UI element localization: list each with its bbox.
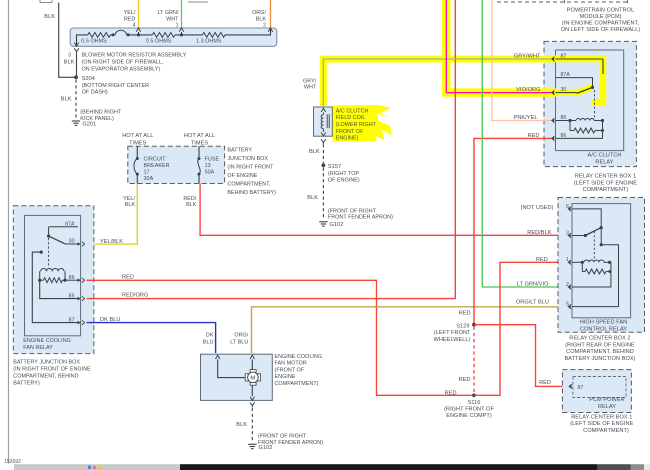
- HS relay contact to pin 5: [572, 229, 619, 307]
- A/C relay coil: [551, 115, 604, 133]
- svg-text:LT GRN/: LT GRN/: [157, 10, 179, 16]
- svg-text:FAN MOTOR: FAN MOTOR: [275, 361, 307, 367]
- svg-text:HOT AT ALL: HOT AT ALL: [184, 133, 215, 139]
- svg-text:(IN RIGHT FRONT: (IN RIGHT FRONT: [227, 164, 274, 170]
- svg-text:13: 13: [205, 163, 211, 169]
- svg-text:RED: RED: [528, 133, 540, 139]
- svg-text:BATTERY JUNCTION BOX): BATTERY JUNCTION BOX): [564, 356, 635, 362]
- A/C coil element: [321, 108, 329, 136]
- fan relay pin 87: [69, 317, 85, 325]
- wire RED/ORG: [87, 0, 456, 299]
- svg-text:(BEHIND RIGHT: (BEHIND RIGHT: [80, 109, 122, 115]
- svg-text:0.5 OHMS: 0.5 OHMS: [81, 38, 107, 44]
- label BLK (to G201): [61, 97, 72, 103]
- svg-text:RED: RED: [459, 377, 471, 383]
- relay center box 1 (PCM power): [562, 370, 631, 413]
- fan relay armature link: [48, 238, 50, 268]
- label HOT AT ALL TIMES (right): [184, 133, 215, 146]
- svg-text:FRONT FENDER APRON): FRONT FENDER APRON): [328, 215, 393, 221]
- battery junction box caption 2: [13, 360, 91, 387]
- svg-text:FAN RELAY: FAN RELAY: [23, 345, 53, 351]
- label DK BLU (vertical): [203, 332, 214, 345]
- A/C coil exit bracket: [321, 139, 326, 144]
- svg-text:RED: RED: [459, 310, 471, 316]
- svg-text:YEL/BLK: YEL/BLK: [100, 239, 123, 245]
- high speed relay box: [572, 204, 631, 318]
- fan relay 87A contact: [47, 221, 78, 237]
- junction S129: [472, 323, 476, 327]
- svg-text:A/C CLUTCH: A/C CLUTCH: [588, 153, 622, 159]
- svg-text:OF DASH): OF DASH): [82, 90, 108, 96]
- HS relay pin 6: [521, 204, 603, 229]
- HS relay armature link: [593, 231, 595, 259]
- circuit breaker 17 30A: [134, 146, 170, 183]
- wire LT GRN/WHT pin 1: [181, 0, 183, 28]
- wire RED dashed S129 to S116: [473, 327, 475, 394]
- svg-text:5: 5: [566, 302, 569, 308]
- fan relay blade: [49, 236, 65, 244]
- relay center box 1 caption: [574, 174, 637, 194]
- svg-text:ENGINE): ENGINE): [336, 136, 359, 142]
- junction S157: [322, 163, 326, 167]
- wire RED S129 to PCM power relay: [474, 325, 568, 387]
- svg-text:GRY/WHT: GRY/WHT: [514, 54, 541, 60]
- fan relay caption: [23, 338, 71, 351]
- svg-text:BLOWER MOTOR RESISTOR ASSEMBLY: BLOWER MOTOR RESISTOR ASSEMBLY: [82, 53, 187, 59]
- pin 1 junction: [179, 28, 183, 37]
- svg-text:RED/ORG: RED/ORG: [122, 293, 148, 299]
- svg-text:30: 30: [69, 239, 75, 245]
- label ORG/LT BLU (pin 5): [516, 299, 549, 305]
- svg-text:MODULE (PCM): MODULE (PCM): [579, 14, 621, 20]
- svg-text:RED/: RED/: [183, 196, 197, 202]
- label RED (PCM relay): [539, 380, 551, 386]
- label S157: [328, 164, 360, 183]
- svg-text:ON EVAPORATOR ASSEMBLY): ON EVAPORATOR ASSEMBLY): [82, 66, 161, 72]
- svg-text:(NOT USED): (NOT USED): [521, 205, 554, 211]
- svg-text:BLK: BLK: [64, 59, 75, 65]
- svg-text:HOT AT ALL: HOT AT ALL: [122, 133, 153, 139]
- svg-text:G201: G201: [82, 122, 96, 128]
- highlight band A/C relay blade: [554, 87, 594, 94]
- svg-text:87A: 87A: [65, 221, 75, 227]
- battery junction box (fuses): [128, 146, 225, 183]
- relay center box 2: [558, 198, 645, 333]
- label DK BLU: [100, 317, 120, 323]
- label GRY/WHT (pin 87): [514, 54, 541, 60]
- label PNK/YEL: [514, 115, 538, 121]
- relay center box 2 caption: [564, 336, 635, 362]
- svg-text:(LEFT SIDE OF ENGINE: (LEFT SIDE OF ENGINE: [574, 180, 637, 186]
- svg-text:30: 30: [561, 87, 567, 93]
- svg-text:30A: 30A: [144, 176, 154, 182]
- svg-text:4: 4: [133, 22, 136, 28]
- label RED above S129: [459, 310, 471, 316]
- highlight blob over A/C clutch field coil text: [333, 105, 393, 142]
- svg-text:(RIGHT FRONT OF: (RIGHT FRONT OF: [444, 407, 494, 413]
- fan relay coil: [38, 269, 80, 283]
- resistor 1.3 OHMS: [196, 33, 225, 45]
- label RED (pin 1): [536, 257, 548, 263]
- resistor network line: [77, 28, 271, 46]
- svg-text:(FRONT OF RIGHT: (FRONT OF RIGHT: [258, 433, 307, 439]
- highlight band VIO/ORG wire: [446, 0, 556, 93]
- svg-text:CONTROL RELAY: CONTROL RELAY: [580, 327, 627, 333]
- fan relay pin 30: [65, 239, 85, 247]
- svg-text:POWERTRAIN CONTROL: POWERTRAIN CONTROL: [567, 7, 634, 13]
- svg-text:1.3 OHMS: 1.3 OHMS: [196, 38, 222, 44]
- wire BLK from connector: [59, 3, 74, 78]
- left panel border: [8, 0, 10, 464]
- label YEL/BLK (vertical wire): [123, 196, 135, 208]
- svg-text:BREAKER: BREAKER: [144, 163, 170, 169]
- label LT GRN/WHT: [157, 10, 179, 28]
- HS relay pin 2: [566, 272, 611, 290]
- label LT GRN/VIO: [517, 282, 549, 288]
- svg-text:TIMES: TIMES: [129, 140, 147, 146]
- wire RED/BLK: [200, 184, 567, 236]
- label front fender apron (motor): [258, 433, 323, 446]
- highlight band GRY/WHT wire: [323, 59, 556, 106]
- svg-text:17: 17: [144, 169, 150, 175]
- svg-text:ON LEFT SIDE OF FIREWALL): ON LEFT SIDE OF FIREWALL): [561, 27, 641, 33]
- svg-text:1: 1: [566, 257, 569, 263]
- svg-text:BLU: BLU: [203, 339, 214, 345]
- svg-text:COMPARTMENT): COMPARTMENT): [275, 381, 319, 387]
- diagram number: [4, 459, 21, 465]
- PCM power relay caption: [589, 397, 624, 410]
- label ORG/LT BLU (vertical): [230, 332, 248, 345]
- fuse 13 50A: [198, 146, 220, 183]
- ground G201: [72, 121, 96, 128]
- powertrain control module label: [561, 7, 641, 33]
- svg-text:S157: S157: [328, 164, 341, 170]
- svg-text:COMPARTMENT,: COMPARTMENT,: [227, 181, 271, 187]
- wire LT GRN/VIO: [482, 0, 567, 287]
- svg-text:(RIGHT TOP: (RIGHT TOP: [328, 171, 360, 177]
- svg-text:ORG/LT BLU: ORG/LT BLU: [516, 299, 549, 305]
- svg-text:BLK: BLK: [186, 202, 197, 208]
- svg-text:PNK/YEL: PNK/YEL: [514, 115, 538, 121]
- svg-text:(BOTTOM RIGHT CENTER: (BOTTOM RIGHT CENTER: [82, 83, 149, 89]
- wire DK BLU: [87, 323, 216, 353]
- svg-text:S129: S129: [456, 323, 469, 329]
- label BLK (top left): [44, 14, 55, 20]
- motor caption: [275, 354, 323, 387]
- svg-text:TIMES: TIMES: [191, 140, 209, 146]
- top partial connector box: [40, 0, 52, 3]
- svg-text:ORG/: ORG/: [252, 10, 266, 16]
- svg-text:ENGINE COMPT): ENGINE COMPT): [446, 413, 492, 419]
- ground G102 (coil): [319, 222, 343, 228]
- blower caption: [82, 53, 187, 73]
- label YEL/BLK (horizontal): [100, 239, 123, 245]
- svg-text:3: 3: [566, 230, 569, 236]
- svg-text:RELAY CENTER BOX 2: RELAY CENTER BOX 2: [569, 336, 630, 342]
- svg-text:(FRONT OF: (FRONT OF: [275, 367, 305, 373]
- svg-text:BLK: BLK: [44, 14, 55, 20]
- svg-text:87: 87: [69, 317, 75, 323]
- svg-text:A/C CLUTCH: A/C CLUTCH: [336, 108, 369, 114]
- wire VIO/ORG core: [446, 0, 551, 93]
- svg-text:2: 2: [263, 22, 266, 28]
- svg-text:BLK: BLK: [125, 202, 136, 208]
- svg-text:OF ENGINE): OF ENGINE): [328, 177, 360, 183]
- svg-text:(LOWER RIGHT: (LOWER RIGHT: [336, 122, 377, 128]
- svg-text:(IN RIGHT FRONT OF ENGINE: (IN RIGHT FRONT OF ENGINE: [13, 367, 91, 373]
- pin 4 junction: [136, 28, 140, 37]
- svg-text:OF ENGINE: OF ENGINE: [227, 173, 257, 179]
- HS relay coil: [566, 257, 611, 274]
- blower motor resistor assembly box: [70, 28, 277, 46]
- resistor 0.5 OHMS (mid): [146, 33, 175, 45]
- svg-text:2: 2: [566, 282, 569, 288]
- svg-text:(LEFT FRONT: (LEFT FRONT: [434, 330, 471, 336]
- svg-text:DK BLU: DK BLU: [100, 317, 120, 323]
- svg-text:(RIGHT REAR OF ENGINE: (RIGHT REAR OF ENGINE: [565, 342, 635, 348]
- svg-text:DK: DK: [206, 332, 214, 338]
- PCM power relay box: [573, 377, 626, 398]
- svg-text:WHT: WHT: [304, 85, 317, 91]
- svg-text:LT BLU: LT BLU: [230, 339, 248, 345]
- svg-text:M: M: [250, 376, 255, 382]
- svg-text:RELAY: RELAY: [595, 160, 613, 166]
- svg-text:WHEELWELL): WHEELWELL): [434, 337, 471, 343]
- wire BLK pin3 to S204: [76, 53, 78, 77]
- wire BLK dashed to G201: [75, 80, 77, 121]
- pin 3 bracket: [74, 48, 79, 53]
- wire BLK dashed S157 to G102: [322, 168, 324, 220]
- svg-text:RELAY CENTER BOX 1: RELAY CENTER BOX 1: [571, 414, 632, 420]
- label RED/ORG: [122, 293, 148, 299]
- svg-text:S116: S116: [468, 400, 481, 406]
- bottom taskbar: [14, 464, 650, 470]
- motor M: [245, 370, 260, 386]
- battery junction box caption: [227, 147, 276, 196]
- svg-text:BATTERY JUNCTION BOX: BATTERY JUNCTION BOX: [13, 360, 80, 366]
- svg-text:0.5 OHMS: 0.5 OHMS: [146, 38, 172, 44]
- svg-text:RED/BLK: RED/BLK: [527, 230, 551, 236]
- high speed relay caption: [580, 320, 628, 333]
- svg-text:PCM POWER: PCM POWER: [589, 397, 624, 403]
- A/C clutch relay box: [556, 50, 624, 151]
- svg-text:ENGINE COOLING: ENGINE COOLING: [23, 338, 71, 344]
- svg-text:(IN ENGINE COMPARTMENT,: (IN ENGINE COMPARTMENT,: [562, 20, 640, 26]
- engine cooling fan motor box: [201, 354, 273, 400]
- svg-text:G102: G102: [330, 222, 344, 228]
- pin 2 arrow: [268, 28, 272, 32]
- motor pin arrows: [216, 355, 255, 359]
- svg-text:KICK PANEL): KICK PANEL): [80, 116, 114, 122]
- PCM power relay pin 87: [568, 384, 583, 391]
- label S116: [444, 400, 494, 419]
- svg-text:COMPARTMENT): COMPARTMENT): [583, 428, 629, 434]
- relay center box 1 caption (bottom): [570, 414, 633, 434]
- label GRY/WHT (left): [303, 78, 317, 90]
- svg-text:RED: RED: [536, 257, 548, 263]
- A/C relay pin 86: [551, 131, 603, 141]
- svg-text:(FRONT OF RIGHT: (FRONT OF RIGHT: [328, 208, 377, 214]
- label YEL/RED: [124, 10, 136, 28]
- label front fender apron (coil): [328, 208, 393, 220]
- A/C clutch field coil box: [314, 107, 333, 136]
- svg-text:FRONT FENDER APRON): FRONT FENDER APRON): [258, 440, 323, 446]
- svg-text:(LEFT SIDE OF ENGINE: (LEFT SIDE OF ENGINE: [570, 421, 633, 427]
- svg-text:ENGINE COOLING: ENGINE COOLING: [275, 354, 323, 360]
- svg-text:COMPARTMENT, BEHIND: COMPARTMENT, BEHIND: [566, 349, 634, 355]
- svg-text:BLK: BLK: [236, 422, 247, 428]
- A/C relay blade and pin 30: [551, 87, 593, 95]
- wire GRY/WHT core: [323, 59, 551, 106]
- svg-text:RED: RED: [539, 380, 551, 386]
- label S204: [82, 76, 149, 96]
- A/C relay 87A contact: [556, 72, 595, 89]
- svg-text:BATTERY): BATTERY): [13, 380, 40, 386]
- svg-text:VIO/ORG: VIO/ORG: [516, 87, 540, 93]
- svg-text:FUSE: FUSE: [205, 156, 220, 162]
- label VIO/ORG (pin 30): [516, 87, 540, 93]
- svg-text:152692: 152692: [4, 459, 21, 465]
- A/C relay armature link: [594, 90, 596, 118]
- relay center box 1 (A/C): [544, 41, 636, 166]
- svg-text:RED: RED: [122, 275, 134, 281]
- svg-text:BLK: BLK: [61, 97, 72, 103]
- svg-text:LT GRN/VIO: LT GRN/VIO: [517, 282, 549, 288]
- svg-text:BEHIND BATTERY): BEHIND BATTERY): [227, 190, 276, 196]
- junction S204: [74, 75, 78, 79]
- A/C relay pin 87: [551, 54, 603, 74]
- label RED/BLK (pin 3): [527, 230, 551, 236]
- wire ORG/LT BLU: [252, 307, 568, 353]
- HS relay pin 5: [566, 302, 571, 309]
- svg-text:(ON RIGHT SIDE OF FIREWALL,: (ON RIGHT SIDE OF FIREWALL,: [82, 60, 164, 66]
- label S129: [434, 323, 472, 343]
- wire YEL/RED pin 4: [138, 0, 140, 28]
- pin 3 arrow: [74, 43, 78, 47]
- label RED above S116: [459, 377, 471, 383]
- A/C clutch field coil text: [336, 108, 377, 141]
- svg-text:FIELD COIL: FIELD COIL: [336, 115, 366, 121]
- label RED/BLK (vertical wire): [183, 196, 197, 208]
- svg-text:FRONT OF: FRONT OF: [336, 129, 364, 135]
- svg-text:BATTERY: BATTERY: [227, 147, 252, 153]
- fan relay 87 contact stub: [32, 251, 80, 323]
- wire RED S116 to pin 1: [474, 262, 567, 395]
- svg-text:COMPARTMENT): COMPARTMENT): [583, 187, 629, 193]
- engine cooling fan relay box: [25, 215, 81, 335]
- pin 3 label: [64, 53, 75, 66]
- battery junction box (relay section): [13, 206, 94, 354]
- motor ground bracket: [250, 402, 255, 407]
- fan relay pin 86: [69, 275, 85, 283]
- svg-text:85: 85: [69, 293, 75, 299]
- svg-text:87: 87: [578, 385, 584, 391]
- svg-text:RELAY CENTER BOX 1: RELAY CENTER BOX 1: [575, 174, 636, 180]
- wire YEL/BLK: [87, 184, 138, 245]
- splice loop: [112, 30, 130, 36]
- label ORG/BLK: [252, 10, 266, 28]
- motor wiring: [218, 359, 255, 400]
- svg-text:BLK: BLK: [309, 149, 320, 155]
- fan relay pin 85: [40, 280, 85, 301]
- wire ORG/BLK pin 2: [270, 0, 272, 28]
- label RED (pin 86): [122, 275, 134, 281]
- wire RED to A/C relay pin 86: [474, 138, 552, 323]
- wire BLK dashed motor to G102: [251, 408, 253, 442]
- wire RED pin86 to S116: [87, 280, 472, 395]
- svg-text:86: 86: [69, 275, 75, 281]
- svg-text:ORG/: ORG/: [234, 332, 248, 338]
- wire BLK dashed to S157: [322, 144, 324, 163]
- label HOT AT ALL TIMES (left): [122, 133, 153, 146]
- ground G102 (motor): [248, 444, 272, 451]
- wire PNK/YEL: [492, 0, 552, 121]
- svg-text:50A: 50A: [205, 169, 215, 175]
- label behind right kick panel: [80, 109, 122, 122]
- label RED (pin 86 A/C): [528, 133, 540, 139]
- label BLK (motor gnd): [236, 422, 247, 428]
- svg-text:JUNCTION BOX: JUNCTION BOX: [227, 156, 268, 162]
- svg-text:YEL/: YEL/: [124, 10, 136, 16]
- svg-text:COMPARTMENT, BEHIND: COMPARTMENT, BEHIND: [13, 373, 78, 379]
- highlight band A/C relay 87 path: [554, 59, 603, 103]
- svg-text:6: 6: [566, 204, 569, 210]
- svg-text:S204: S204: [82, 76, 95, 82]
- svg-text:RED: RED: [445, 391, 457, 397]
- svg-text:3: 3: [68, 53, 71, 59]
- svg-text:GRY/: GRY/: [303, 78, 317, 84]
- svg-text:1: 1: [176, 22, 179, 28]
- label BLK (coil gnd): [307, 195, 318, 201]
- PCM dashed box bottom edge: [188, 0, 630, 3]
- svg-text:YEL/: YEL/: [123, 196, 135, 202]
- svg-text:HIGH SPEED FAN: HIGH SPEED FAN: [580, 320, 628, 326]
- HS relay pin 3 and blade: [566, 228, 601, 238]
- svg-text:BLK: BLK: [307, 195, 318, 201]
- label RED left of S116: [445, 391, 457, 397]
- svg-text:CIRCUIT: CIRCUIT: [144, 156, 167, 162]
- resistor 0.5 OHMS (left): [81, 33, 110, 45]
- label BLK (coil): [309, 149, 320, 155]
- svg-text:ENGINE: ENGINE: [275, 374, 296, 380]
- svg-text:RELAY: RELAY: [598, 404, 616, 410]
- A/C clutch relay caption: [588, 153, 622, 166]
- junction S116: [472, 393, 476, 397]
